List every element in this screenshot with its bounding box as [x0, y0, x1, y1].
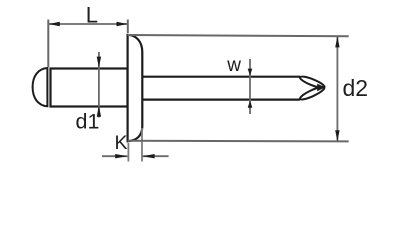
mandrel tip lower facet (leaf): [299, 85, 326, 102]
arrowhead L left: [49, 22, 60, 26]
arrowhead L right: [117, 22, 128, 26]
K dimension line right segment: [142, 155, 168, 157]
K dimension line left segment: [102, 155, 127, 157]
d2 dimension line: [336, 36, 338, 141]
svg-text:w: w: [226, 55, 241, 76]
d1 dimension line: [98, 52, 100, 118]
dimension line L: [49, 23, 128, 25]
mandrel stem top edge: [142, 76, 300, 78]
arrowhead d1 top (pointing down onto body top edge): [97, 57, 101, 68]
d2 top extension line: [128, 35, 349, 36]
mandrel tip vertex: [317, 84, 325, 92]
rivet body (tube): [51, 69, 128, 107]
svg-text:L: L: [86, 2, 98, 27]
w dimension line: [249, 59, 251, 114]
K extension line left: [127, 143, 129, 162]
arrowhead K left (pointing right): [115, 154, 127, 158]
arrowhead d2 bottom (pointing down): [335, 130, 339, 141]
arrowhead K right (pointing left): [142, 154, 154, 158]
svg-text:K: K: [115, 132, 128, 154]
extension line L right: [127, 20, 129, 34]
K extension line right: [141, 128, 143, 162]
d2 bottom extension line: [128, 140, 349, 143]
svg-text:d2: d2: [343, 75, 369, 101]
rivet mandrel head dome (left end cap): [33, 68, 48, 106]
mandrel stem bottom edge: [142, 98, 300, 100]
mandrel tip upper facet (leaf): [299, 75, 326, 90]
arrowhead d1 bottom (pointing up onto body bottom edge): [97, 106, 101, 117]
extension line L left: [47, 20, 49, 68]
arrowhead d2 top (pointing up): [335, 36, 339, 47]
arrowhead w top (pointing down onto stem top edge): [248, 69, 253, 76]
arrowhead w bottom (pointing up onto stem bottom edge): [248, 100, 253, 107]
flange / rivet head (dome): [128, 35, 143, 142]
svg-text:d1: d1: [76, 110, 100, 134]
